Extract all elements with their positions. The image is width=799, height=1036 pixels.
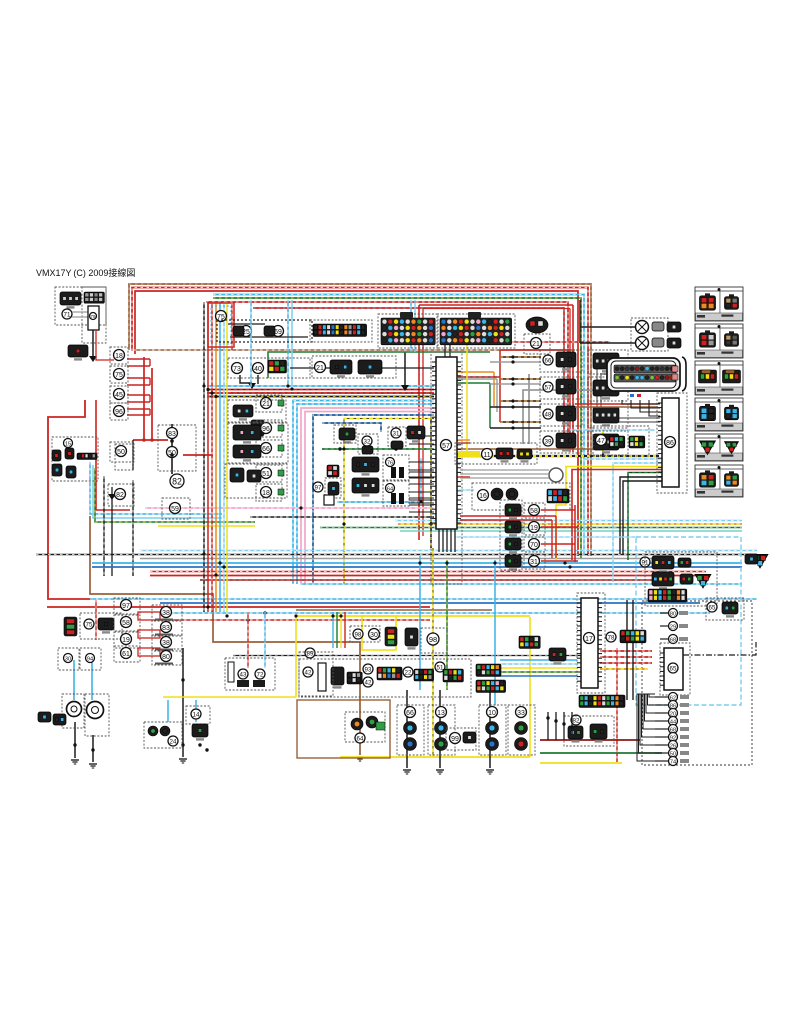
svg-text:82: 82	[116, 492, 124, 499]
svg-text:66: 66	[262, 446, 270, 453]
svg-text:10: 10	[488, 710, 496, 717]
svg-text:99: 99	[451, 736, 459, 743]
svg-text:82: 82	[172, 477, 182, 487]
svg-text:43: 43	[240, 672, 247, 679]
svg-text:98: 98	[355, 632, 362, 639]
svg-text:16: 16	[479, 493, 487, 500]
svg-text:33: 33	[517, 710, 525, 717]
svg-text:21: 21	[262, 401, 270, 408]
svg-text:65: 65	[709, 605, 716, 612]
svg-text:38: 38	[162, 610, 170, 617]
svg-text:13: 13	[437, 710, 445, 717]
svg-text:19: 19	[122, 637, 130, 644]
svg-text:48: 48	[545, 412, 552, 419]
svg-text:74: 74	[670, 759, 676, 765]
svg-text:30: 30	[65, 656, 71, 662]
svg-text:75: 75	[86, 622, 93, 629]
svg-text:18: 18	[262, 490, 270, 497]
svg-text:51: 51	[262, 471, 270, 478]
svg-text:59: 59	[171, 506, 179, 513]
svg-text:71: 71	[64, 312, 71, 319]
svg-text:58: 58	[530, 508, 538, 515]
svg-text:73: 73	[233, 366, 241, 373]
svg-text:50: 50	[117, 449, 125, 456]
svg-text:75: 75	[115, 372, 123, 379]
svg-text:61: 61	[122, 651, 130, 658]
svg-text:80: 80	[670, 611, 676, 617]
svg-text:96: 96	[115, 409, 123, 416]
svg-text:31: 31	[393, 431, 400, 438]
svg-text:42: 42	[365, 680, 372, 687]
svg-text:30: 30	[370, 632, 378, 639]
svg-text:24: 24	[170, 739, 177, 746]
svg-text:64: 64	[387, 486, 393, 492]
svg-text:83: 83	[162, 625, 170, 632]
svg-text:66: 66	[545, 358, 552, 365]
svg-text:11: 11	[483, 452, 490, 459]
svg-text:47: 47	[597, 438, 605, 445]
svg-text:65: 65	[670, 666, 677, 673]
svg-text:17: 17	[585, 636, 593, 643]
svg-text:15: 15	[65, 441, 71, 447]
svg-text:21: 21	[532, 341, 540, 348]
svg-text:98: 98	[429, 635, 437, 644]
svg-text:66: 66	[406, 710, 414, 717]
svg-text:83: 83	[168, 431, 176, 438]
svg-text:72: 72	[257, 672, 264, 679]
svg-text:38: 38	[162, 640, 170, 647]
svg-text:64: 64	[357, 736, 364, 743]
svg-text:78: 78	[608, 635, 615, 642]
svg-text:42: 42	[305, 670, 312, 677]
svg-text:70: 70	[530, 542, 538, 549]
svg-text:21: 21	[316, 365, 324, 372]
svg-text:57: 57	[442, 443, 450, 450]
svg-text:86: 86	[666, 440, 674, 447]
svg-text:76: 76	[387, 460, 393, 466]
svg-text:45: 45	[115, 392, 123, 399]
svg-text:29: 29	[670, 624, 676, 630]
svg-text:40: 40	[254, 366, 262, 373]
svg-text:22: 22	[405, 670, 412, 677]
svg-text:93: 93	[365, 667, 372, 674]
svg-text:82: 82	[573, 718, 580, 725]
svg-text:79: 79	[91, 314, 96, 319]
svg-text:18: 18	[115, 353, 123, 360]
svg-text:14: 14	[193, 712, 200, 719]
svg-text:97: 97	[122, 603, 130, 610]
svg-text:VMX17Y (C) 2009接線図: VMX17Y (C) 2009接線図	[36, 267, 135, 278]
svg-text:97: 97	[315, 485, 322, 492]
svg-text:31: 31	[530, 559, 538, 566]
svg-text:32: 32	[364, 439, 371, 446]
svg-text:39: 39	[545, 439, 552, 446]
svg-text:80: 80	[162, 654, 170, 661]
svg-text:96: 96	[262, 426, 270, 433]
svg-text:94: 94	[87, 656, 93, 662]
svg-text:19: 19	[530, 525, 538, 532]
svg-text:68: 68	[670, 637, 676, 643]
svg-text:57: 57	[545, 385, 552, 392]
svg-text:58: 58	[122, 620, 130, 627]
